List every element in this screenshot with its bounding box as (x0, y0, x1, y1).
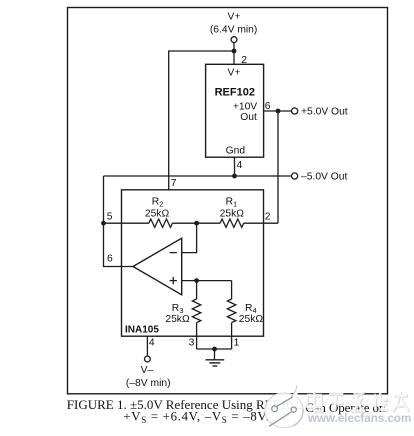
junction ground node (212, 347, 217, 352)
wire +5V rail down to INA105 pin 2 (277, 111, 279, 223)
wire pin 5 to R2 (104, 222, 150, 224)
wire -5V node to -5.0V Out terminal (104, 175, 292, 177)
wire INA105 pin 4 to V- terminal (146, 336, 148, 356)
resistor R2 (149, 219, 173, 227)
svg-text:25kΩ: 25kΩ (239, 314, 264, 325)
wire pin 3 to pin 1 (197, 348, 232, 350)
watermark logo tail (291, 385, 298, 397)
svg-text:+10V: +10V (233, 101, 257, 112)
svg-text:4: 4 (149, 338, 155, 349)
svg-text:25kΩ: 25kΩ (145, 208, 170, 219)
op-amp U1 (133, 238, 182, 295)
svg-text:7: 7 (171, 178, 177, 189)
op-amp minus sign (170, 252, 177, 254)
svg-text:25kΩ: 25kΩ (165, 314, 190, 325)
IC INA105 box (122, 190, 264, 336)
svg-text:Out: Out (240, 112, 257, 123)
wire to ground (214, 349, 216, 360)
junction feedback node (194, 221, 199, 226)
svg-text:(–8V min): (–8V min) (126, 378, 171, 389)
watermark chinese characters (307, 391, 409, 412)
svg-text:25kΩ: 25kΩ (220, 208, 245, 219)
wire left rail -5V node down to op-amp output (104, 176, 134, 267)
wire REF102 Gnd pin 4 down (234, 157, 236, 176)
terminal +5.0V Out (292, 108, 298, 114)
svg-text:4: 4 (237, 160, 243, 171)
op-amp plus sign (170, 280, 177, 282)
svg-text:+5.0V Out: +5.0V Out (301, 107, 348, 118)
resistor R3 (192, 299, 200, 323)
svg-text:Gnd: Gnd (226, 146, 246, 157)
svg-text:6: 6 (107, 253, 113, 264)
wire down to R3 (196, 281, 198, 300)
border frame (68, 8, 388, 394)
svg-text:–5.0V Out: –5.0V Out (301, 172, 348, 183)
wire R4 to pin 1 (231, 323, 233, 349)
svg-text:2: 2 (265, 211, 271, 222)
ground (206, 360, 225, 366)
watermark logo link icon (269, 397, 296, 427)
wire noninverting input to R3 R4 (182, 280, 232, 282)
resistor R1 (220, 219, 244, 227)
svg-text:V+: V+ (228, 68, 241, 79)
wire R1 to pin 2 rail (244, 222, 278, 224)
watermark logo circle (265, 393, 303, 428)
svg-text:3: 3 (189, 337, 195, 348)
junction pin 5 tap (101, 221, 106, 226)
svg-text:INA105: INA105 (125, 325, 159, 336)
terminal -5.0V Out (292, 173, 298, 179)
IC REF102 (206, 64, 264, 157)
terminal V- (145, 356, 151, 362)
junction -5V node (232, 174, 237, 179)
junction V+ (232, 49, 237, 54)
svg-text:V–: V– (141, 365, 154, 376)
wire REF102 pin 6 to +5.0V Out terminal (264, 110, 292, 112)
junction noninverting node (194, 278, 199, 283)
terminal V+ (231, 37, 237, 43)
wire inverting input to feedback node (182, 223, 197, 252)
wire V+ junction to INA105 pin 7 rail (169, 51, 234, 190)
svg-text:www.elecfans.com: www.elecfans.com (307, 412, 411, 425)
resistor R4 (227, 299, 235, 323)
svg-text:V+: V+ (228, 12, 241, 23)
svg-text:5: 5 (107, 212, 113, 223)
wire V+ terminal to REF102 pin 2 (233, 43, 235, 65)
wire R3 to pin 3 (196, 323, 198, 349)
svg-text:1: 1 (234, 337, 240, 348)
wire down to R4 (231, 281, 233, 300)
svg-text:REF102: REF102 (215, 87, 255, 99)
junction +5V node (276, 109, 281, 114)
wire R2 to R1 (172, 222, 220, 224)
svg-text:(6.4V min): (6.4V min) (210, 25, 258, 36)
